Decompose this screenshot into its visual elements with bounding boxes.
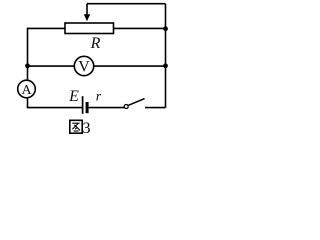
label E	[68, 88, 79, 105]
svg-text:R: R	[90, 35, 101, 52]
battery cell short thick plate	[86, 102, 89, 113]
switch S lever	[128, 99, 144, 106]
ammeter A	[18, 80, 36, 98]
wire right horizontal out of rheostat	[114, 27, 166, 29]
wire switch to right rail	[145, 107, 166, 109]
caption glyph 图	[70, 120, 82, 133]
wire right vertical rail	[165, 4, 167, 108]
wire left horizontal into rheostat	[28, 27, 66, 29]
node left junction	[25, 63, 30, 68]
wire left vertical rail	[27, 28, 29, 81]
node right junction top	[163, 26, 168, 31]
voltmeter V	[74, 56, 93, 75]
rheostat R body	[65, 23, 114, 34]
battery cell long plate	[82, 96, 84, 114]
svg-text:A: A	[21, 83, 32, 98]
rheostat R wiper arrow	[84, 4, 90, 22]
switch S pivot	[124, 105, 128, 109]
node right junction middle	[163, 63, 168, 68]
svg-text:E: E	[68, 88, 79, 105]
svg-text:V: V	[78, 59, 90, 76]
label R	[90, 35, 101, 52]
wire top feed from wiper to right rail	[87, 3, 166, 5]
wire voltmeter right lead	[94, 65, 166, 67]
wire voltmeter left lead	[28, 65, 75, 67]
wire battery to switch	[89, 107, 124, 109]
wire ammeter to bottom rail	[28, 98, 83, 108]
caption text 3	[83, 120, 91, 137]
label r	[96, 90, 102, 105]
svg-text:3: 3	[83, 120, 91, 137]
svg-text:r: r	[96, 90, 102, 105]
